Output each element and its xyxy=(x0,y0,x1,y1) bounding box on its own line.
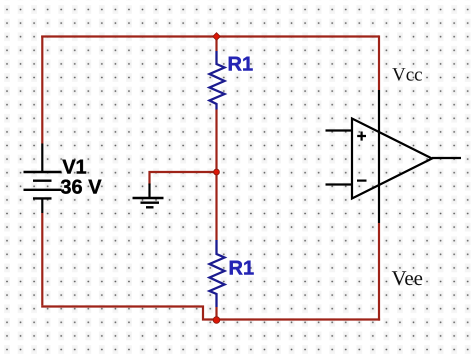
svg-text:V1: V1 xyxy=(62,157,86,179)
wire: center segment R1 bottom to R1(2) top through mid junction xyxy=(215,110,217,241)
battery V1 plate long 1 xyxy=(24,171,62,173)
wire: top rail from battery to Vcc corner xyxy=(41,35,379,37)
wire: center stub top junction to R1 xyxy=(215,37,217,52)
battery V1 bottom lead xyxy=(41,200,43,214)
ground bar 2 xyxy=(141,201,160,203)
op-amp U1 plus symbol xyxy=(357,132,366,141)
wire: ground branch from mid junction xyxy=(150,172,217,185)
svg-text:Vcc: Vcc xyxy=(392,64,423,85)
op-amp U1 + input lead xyxy=(326,129,353,131)
svg-text:Vee: Vee xyxy=(392,266,423,290)
svg-text:R1: R1 xyxy=(228,54,254,76)
ground bar 3 xyxy=(146,206,154,208)
junction node middle xyxy=(214,169,220,175)
wire: left rail upper (battery + to top rail) xyxy=(41,36,43,144)
op-amp U1 power line (Vcc to Vee through body) xyxy=(378,90,380,223)
wire: right rail Vcc red segment xyxy=(378,35,380,90)
wire: right rail Vee red segment xyxy=(378,223,380,321)
op-amp U1 - input lead xyxy=(326,183,353,185)
battery V1 plate short 1 xyxy=(33,179,52,181)
battery V1 top lead xyxy=(41,144,43,172)
op-amp U1 minus symbol xyxy=(357,180,367,182)
resistor R1 (top) xyxy=(210,51,225,110)
ground lead xyxy=(148,184,150,199)
wire: center stub R1(2) bottom to bottom junction xyxy=(215,307,217,320)
ground bar 1 xyxy=(133,197,164,199)
battery V1 plate long 2 xyxy=(24,189,62,191)
svg-text:R1: R1 xyxy=(229,258,255,280)
junction node bottom xyxy=(213,317,220,324)
wire: bottom rail with step xyxy=(41,307,380,320)
wire: left rail lower (battery - down to bottom rail) xyxy=(41,213,43,305)
junction node top xyxy=(213,33,221,41)
svg-text:36 V: 36 V xyxy=(60,177,102,199)
battery V1 plate short 2 xyxy=(33,197,52,199)
op-amp U1 triangle xyxy=(352,119,432,199)
resistor R1 (bottom) xyxy=(210,240,225,307)
op-amp U1 output lead xyxy=(432,157,461,159)
